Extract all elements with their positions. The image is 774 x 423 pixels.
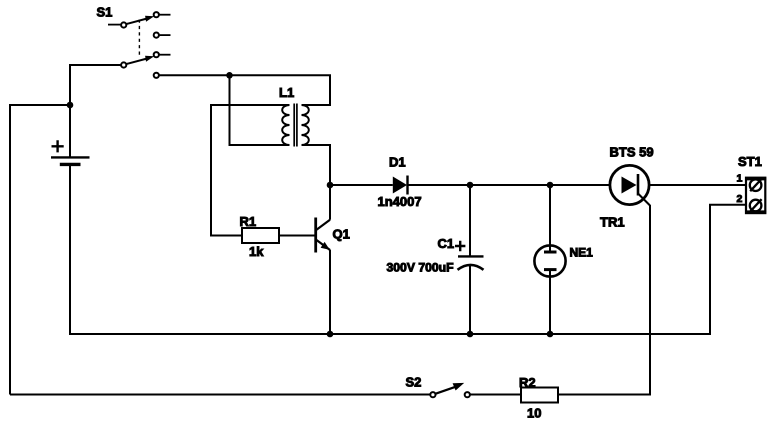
wire C1 bottom lead (469, 265, 471, 334)
svg-text:L1: L1 (279, 85, 294, 100)
junction node battery / S1 (67, 102, 74, 109)
svg-text:1: 1 (737, 172, 743, 184)
junction node C1 / NE1 / TR1 (547, 182, 554, 189)
svg-text:10: 10 (527, 405, 541, 420)
wire S2 to R2 (470, 394, 521, 396)
junction node NE1 on rail (547, 331, 554, 338)
battery B1 (51, 140, 90, 164)
svg-text:1k: 1k (249, 244, 264, 259)
svg-text:S2: S2 (406, 374, 422, 389)
wire TR1 cathode to ST1 pin 1 (649, 184, 747, 186)
svg-text:2: 2 (737, 193, 743, 205)
wire S1 pole B to battery junction (70, 65, 121, 106)
diode D1 (393, 176, 408, 195)
resistor R1 (242, 228, 279, 243)
wire junction to L1 primary bottom (230, 75, 290, 145)
wire node to D1 anode (330, 184, 393, 186)
junction node C1 on rail (467, 331, 474, 338)
junction node D1 / C1 (467, 182, 474, 189)
svg-text:BTS 59: BTS 59 (610, 144, 654, 159)
resistor R2 (521, 388, 558, 403)
wire battery negative to ground rail (69, 165, 71, 335)
svg-text:R2: R2 (519, 375, 536, 390)
switch S2 (430, 383, 470, 397)
wire L1 secondary bottom to Q1 collector node (302, 145, 331, 220)
connector ST1 (745, 178, 766, 213)
neon lamp NE1 (534, 245, 565, 276)
wire D1 cathode to TR1 (408, 184, 611, 186)
capacitor C1 (455, 241, 484, 270)
wire NE1 top lead (549, 185, 551, 252)
wire rail to ST1 pin 2 (710, 205, 746, 335)
wire left rail to battery junction (9, 104, 70, 106)
wire NE1 bottom lead (549, 270, 551, 335)
wire bottom run to S2 (10, 394, 430, 396)
wire S1 throw to L1 secondary top (159, 75, 330, 105)
svg-text:C1: C1 (438, 236, 455, 251)
wire left vertical rail (9, 105, 11, 395)
junction node L1 primary feed (226, 72, 233, 79)
wire battery positive lead (69, 104, 71, 157)
svg-text:R1: R1 (240, 214, 257, 229)
transistor Q1 (316, 218, 330, 253)
wire C1 top lead (469, 185, 471, 256)
svg-text:NE1: NE1 (570, 245, 594, 259)
thyristor TR1 (610, 165, 650, 205)
wire ground rail (69, 333, 710, 335)
svg-text:ST1: ST1 (738, 154, 762, 169)
svg-text:S1: S1 (97, 5, 113, 20)
svg-text:D1: D1 (389, 155, 406, 170)
svg-text:TR1: TR1 (600, 215, 625, 230)
switch S1 (108, 12, 171, 78)
svg-text:Q1: Q1 (333, 226, 350, 241)
transformer L1 (282, 104, 309, 147)
wire TR1 gate down to R2 (558, 205, 650, 395)
junction node Q1 emitter on rail (327, 331, 334, 338)
svg-text:300V 700uF: 300V 700uF (387, 260, 454, 274)
wire R1 to Q1 base (279, 235, 315, 237)
wire Q1 emitter to ground rail (329, 250, 331, 334)
svg-text:1n4007: 1n4007 (378, 194, 422, 209)
junction node Q1 collector / L1 / D1 (327, 182, 334, 189)
wire L1 primary top to R1 (211, 105, 290, 236)
